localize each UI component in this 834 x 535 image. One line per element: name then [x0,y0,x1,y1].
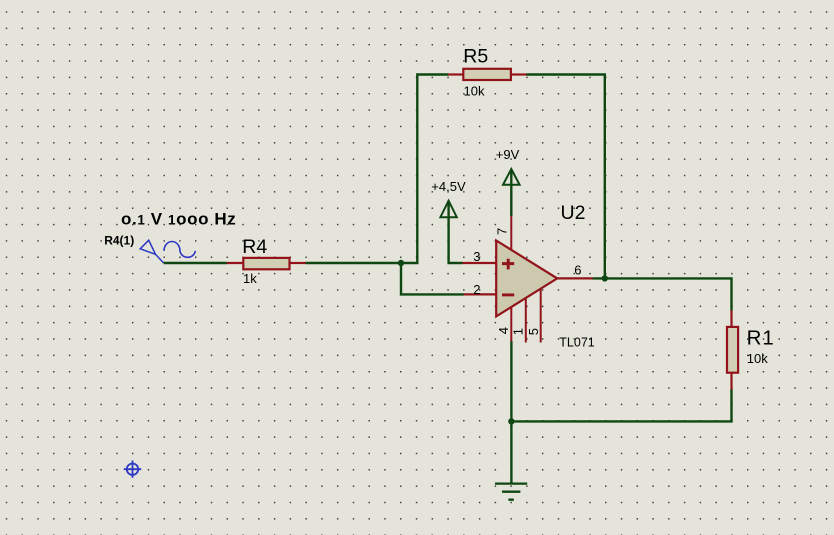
svg-text:R1: R1 [747,326,775,349]
wire +4.5V to pin 3 [449,201,463,263]
svg-text:2: 2 [473,282,480,297]
op-amp minus mark [502,293,514,296]
svg-text:4: 4 [496,327,511,334]
pin 6 output [557,277,593,279]
svg-text:10k: 10k [747,351,768,366]
svg-text:R5: R5 [463,46,488,68]
svg-text:R4: R4 [242,236,267,258]
pin R4 left lead [227,262,243,264]
wire output node to R1 top [593,278,732,310]
junction output node [602,275,608,281]
resistor R1 body [727,327,738,373]
junction node A [398,260,404,266]
svg-text:TL071: TL071 [559,336,594,350]
wire node A down to inverting input [401,263,464,294]
svg-text:7: 7 [494,228,509,235]
resistor R4 body [243,258,289,269]
ground symbol [495,484,527,500]
pin R1 bottom lead [730,373,732,390]
junction ground node [508,418,514,424]
power arrow +9V [503,169,520,185]
pin 5 offset null N2 [540,285,542,343]
pin 7 V+ [510,216,512,254]
svg-text:6: 6 [574,262,581,277]
pin R5 left lead [448,73,464,75]
svg-text:R4(1): R4(1) [104,234,134,248]
generator flag symbol [140,240,163,263]
wire R1 bottom to ground node [511,390,731,422]
svg-text:+4.5V: +4.5V [431,179,466,194]
svg-text:1: 1 [511,328,526,335]
svg-text:5: 5 [526,328,541,335]
svg-text:1k: 1k [243,271,257,286]
wire pin 4 to ground [510,341,512,483]
op-amp plus mark [502,259,514,270]
wire R5 right down to output node [526,75,604,279]
pin 2 inverting input [464,293,497,295]
wire +9V to pin 7 [510,169,512,216]
pin 3 non-inverting input [463,262,497,264]
svg-text:+9V: +9V [496,147,520,162]
wire input from source to R4 [164,262,228,264]
pin R4 right lead [291,262,306,264]
pin 1 offset null N1 [525,294,527,343]
wire R4 right to junction A and up to R5 left [306,75,449,264]
op-amp U2 body [496,241,557,317]
pin 4 V- [510,303,512,341]
svg-text:U2: U2 [561,202,586,224]
pin R1 top lead [730,310,732,327]
svg-text:o.1 V 1ooo Hz: o.1 V 1ooo Hz [121,210,236,229]
svg-text:3: 3 [473,249,480,264]
resistor R5 body [463,69,511,80]
generator sine symbol [164,242,195,258]
power arrow +4.5V [440,201,456,218]
origin crosshair marker [124,461,141,478]
pin R5 right lead [511,73,527,75]
svg-text:10k: 10k [464,84,485,99]
